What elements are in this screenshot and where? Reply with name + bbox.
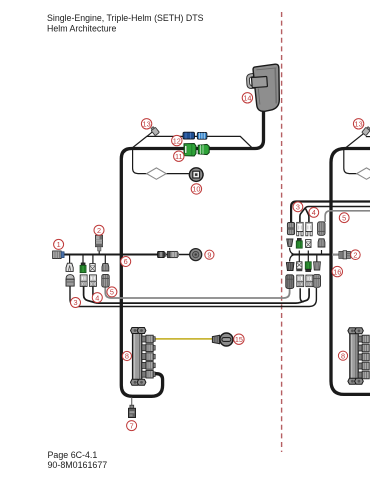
label 16 (332, 266, 342, 276)
connector 9 receptacle (168, 251, 179, 257)
wire: row2 stubs (299, 250, 321, 255)
trunk stub 3a right (dark) (286, 263, 294, 271)
wire: helm3 feed a (300, 207, 370, 223)
svg-text:4: 4 (95, 293, 99, 302)
trunk stub 2d right (gray) (318, 239, 325, 247)
wire: CAN stub to blue connectors (132, 136, 253, 148)
connector 4a (white) (80, 275, 87, 287)
svg-text:14: 14 (243, 94, 251, 103)
feed connector 4Ra (white) (297, 222, 303, 235)
svg-text:8: 8 (125, 352, 129, 361)
svg-text:12: 12 (173, 136, 181, 145)
svg-text:9: 9 (207, 250, 211, 259)
svg-text:8: 8 (341, 351, 345, 360)
junction box 8 right ports (358, 335, 369, 379)
CAN blue connector pair 12 (183, 132, 207, 139)
junction box 8 left (131, 328, 146, 386)
wire: stub S1 (69, 256, 71, 264)
label 3 right (293, 202, 303, 212)
link connector 4d right (gray) (313, 275, 320, 288)
wire: main CAN trunk helm2 (thick) (331, 149, 370, 395)
wire: stub to connector 2 (98, 247, 100, 254)
svg-text:2: 2 (97, 226, 101, 235)
svg-text:2: 2 (353, 250, 357, 259)
svg-text:16: 16 (333, 267, 341, 276)
connector 4b (white) (90, 275, 97, 287)
start/stop button 9 (190, 249, 202, 261)
label 8 right (338, 351, 347, 360)
label 2 (94, 225, 104, 235)
label 13 left (141, 119, 151, 129)
label 4 right (309, 208, 319, 218)
wire: link to connector 9 (166, 254, 190, 256)
svg-text:3: 3 (73, 298, 77, 307)
trunk stub 3d right (gray) (314, 262, 321, 270)
wire: helm3 feed gray (325, 211, 370, 222)
svg-text:15: 15 (235, 335, 243, 344)
svg-text:7: 7 (130, 421, 134, 430)
label 8 left (122, 351, 131, 360)
connector 9 inline plug (158, 251, 167, 257)
junction box 8 left ports (142, 335, 155, 378)
connector 3 (barrel) (66, 275, 74, 287)
link connector 4a right (gray barrel) (286, 275, 294, 289)
label 14 (242, 93, 252, 103)
wire: row3 stubs (299, 255, 317, 263)
svg-text:5: 5 (110, 288, 114, 297)
svg-text:1: 1 (57, 240, 61, 249)
wire: drop to connector 10 (133, 150, 190, 174)
label 10 (191, 184, 201, 194)
junction box 8 right (348, 328, 363, 384)
wire: helm2 harness trunk horizontal (292, 254, 339, 256)
connector 10 (round accessory) (189, 168, 204, 182)
connector 7 (lanyard/drop lead) (129, 405, 136, 417)
wire: CAN stub continuing right (366, 136, 370, 138)
trunk stub 3b right (white) (296, 262, 302, 271)
svg-text:6: 6 (124, 257, 128, 266)
feed connector 4Rb (white) (306, 222, 312, 235)
label 5 (107, 287, 117, 297)
wire: helm3 feed thick (291, 202, 370, 223)
connector 1 (helm harness end) (53, 251, 65, 259)
trunk stub 3c right (green) (305, 262, 311, 272)
svg-text:Page 6C-4.1: Page 6C-4.1 (48, 450, 98, 460)
wire: stub S3 (92, 256, 94, 264)
stub connector S2 (green) (80, 263, 86, 273)
label 3 (71, 298, 81, 308)
wire: main CAN trunk helm1 (thick) (121, 109, 263, 396)
ERC trackpad 14 (247, 64, 280, 111)
label 11 (174, 151, 184, 161)
WIRES-RIGHT (290, 134, 370, 395)
label 13 right (353, 119, 363, 129)
wire: helm3 feed b (306, 209, 309, 223)
svg-text:13: 13 (143, 120, 151, 129)
trunk stub 2a right (dark) (287, 239, 293, 246)
CAN green connector pair 11 (184, 144, 209, 157)
wire: CAN stub to terminator 13 right (345, 134, 364, 149)
connector 2 right (horizontal) (332, 251, 350, 259)
strain relief loop (diamond) left (147, 168, 167, 179)
link connector 4c right (white) (306, 275, 313, 287)
feed connector 3R (dark barrel) (287, 223, 294, 235)
accessory connector 15 (212, 333, 233, 346)
helm separator dashed line (281, 12, 283, 452)
connector 2 (helm power) (96, 235, 103, 251)
wire: helm harness trunk horizontal (63, 254, 158, 256)
wire: connector 4a to next helm (84, 286, 310, 303)
stub connector S3 (white) (90, 264, 95, 272)
svg-text:90-8M0161677: 90-8M0161677 (48, 460, 108, 470)
strain relief loop (diamond) right (357, 168, 370, 179)
trunk stub 2b right (green) (296, 238, 302, 248)
wire: stub to terminator 13 (147, 132, 153, 137)
svg-text:Helm Architecture: Helm Architecture (47, 23, 117, 33)
wire: drop to connector 7 (131, 398, 133, 407)
link connector 4b right (white) (297, 275, 304, 287)
label 4 (92, 293, 102, 303)
svg-text:13: 13 (355, 120, 363, 129)
svg-text:3: 3 (296, 203, 300, 212)
svg-text:5: 5 (342, 213, 346, 222)
label 5 right (339, 213, 349, 223)
wire: stub S2 (82, 256, 84, 264)
wire: drop to connector 10 right (344, 150, 370, 174)
label 6 (121, 257, 131, 267)
wire: connector 4b to next helm (93, 286, 304, 302)
wire: connector 3 to next helm (70, 286, 316, 307)
CAN terminator 13 left (150, 126, 159, 136)
label 15 (234, 334, 244, 344)
wire: stub S4 (104, 256, 106, 264)
svg-text:11: 11 (175, 152, 183, 161)
svg-text:Single-Engine, Triple-Helm (SE: Single-Engine, Triple-Helm (SETH) DTS (47, 13, 204, 23)
wire: yellow accessory lead (154, 338, 214, 340)
wire: row3 stub curve (290, 255, 297, 262)
label 1 (54, 239, 64, 249)
svg-text:4: 4 (312, 208, 316, 217)
stub connector S1 (66, 263, 73, 271)
trunk stub 2c right (white) (306, 240, 311, 248)
CAN terminator 13 right (362, 126, 370, 136)
wire: connector 5 to next helm (gray) (105, 287, 289, 298)
wire: row2 stub curve (290, 248, 297, 255)
feed connector 5R (gray ribbed) (318, 222, 325, 236)
label 12 (172, 135, 182, 145)
label 2 right (351, 250, 361, 260)
stub connector S4 (102, 264, 109, 271)
WIRES-LEFT (63, 109, 317, 406)
label 9 (205, 250, 214, 259)
svg-text:10: 10 (192, 185, 200, 194)
label 7 (127, 421, 137, 431)
connector 5 (gray ribbed) (102, 274, 109, 287)
